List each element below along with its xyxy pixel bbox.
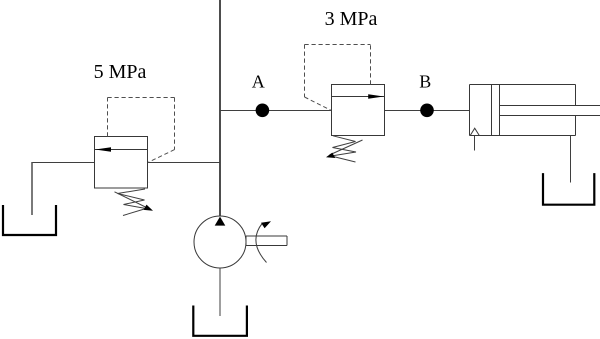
svg-text:B: B xyxy=(419,71,431,91)
svg-text:3 MPa: 3 MPa xyxy=(325,8,378,30)
svg-text:A: A xyxy=(252,71,265,91)
svg-text:5 MPa: 5 MPa xyxy=(94,61,147,83)
